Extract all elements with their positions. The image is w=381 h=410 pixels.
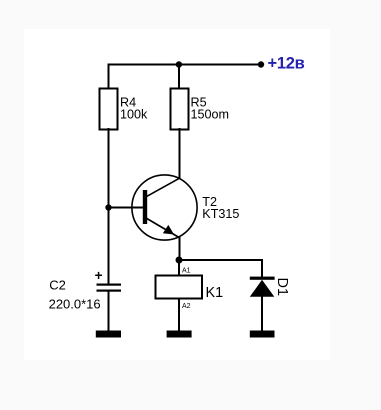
wire D1 to ground bbox=[261, 296, 263, 331]
resistor R4 bbox=[100, 89, 149, 130]
wire base bbox=[109, 207, 144, 209]
wire junction to K1 bbox=[178, 260, 180, 276]
capacitor C2 bbox=[49, 268, 121, 312]
svg-text:A1: A1 bbox=[182, 268, 191, 275]
svg-text:+12в: +12в bbox=[268, 55, 305, 73]
wire junction to D1 bbox=[179, 260, 262, 278]
svg-text:A2: A2 bbox=[182, 303, 191, 310]
transistor T2 bbox=[132, 175, 240, 240]
wire emitter down bbox=[179, 237, 181, 262]
ground (K1) bbox=[167, 331, 192, 338]
wire R5 bottom to collector bbox=[179, 128, 181, 179]
relay K1 bbox=[156, 268, 224, 310]
ground (D1) bbox=[250, 331, 275, 338]
wire R5 to top rail bbox=[178, 64, 180, 91]
svg-text:150om: 150om bbox=[191, 108, 230, 122]
svg-text:100k: 100k bbox=[120, 108, 148, 122]
wire C2 to ground bbox=[108, 291, 110, 331]
svg-text:+: + bbox=[95, 268, 103, 283]
node emitter junction bbox=[176, 257, 183, 264]
ground (C2) bbox=[96, 331, 121, 338]
svg-text:D1: D1 bbox=[274, 278, 290, 297]
node top rail / R5 junction bbox=[176, 61, 182, 67]
wire R4 bottom to C2 top (base node) bbox=[108, 128, 110, 285]
wire top rail bbox=[108, 64, 262, 66]
svg-text:KT315: KT315 bbox=[202, 207, 239, 221]
wire R4 to top rail bbox=[108, 64, 110, 91]
node base junction bbox=[105, 204, 111, 210]
node +12V terminal bbox=[258, 61, 264, 67]
diode D1 bbox=[250, 277, 290, 297]
resistor R5 bbox=[171, 89, 230, 130]
svg-text:C2: C2 bbox=[49, 277, 66, 292]
svg-text:220.0*16: 220.0*16 bbox=[49, 297, 101, 312]
svg-text:K1: K1 bbox=[206, 285, 224, 301]
wire K1 to ground bbox=[178, 298, 180, 332]
